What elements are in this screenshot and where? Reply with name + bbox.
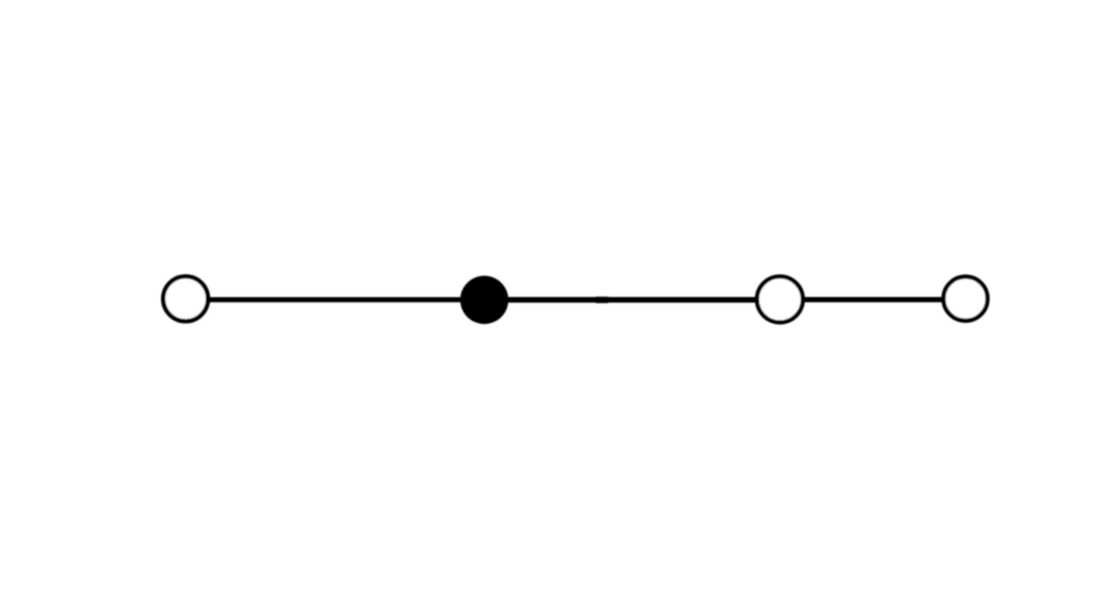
wire junction overlap (596, 297, 608, 303)
node 2 (filled circle) (460, 276, 508, 324)
node 4 (open circle) (944, 277, 988, 321)
wire segment 3 (node 3 to node 4) (795, 297, 950, 302)
wire segment 1 (node 1 to node 2) (200, 297, 470, 302)
node 1 (open circle) (163, 276, 208, 321)
wire segment 2 (node 2 to node 3) (498, 297, 765, 303)
node 3 (open circle) (757, 277, 803, 323)
